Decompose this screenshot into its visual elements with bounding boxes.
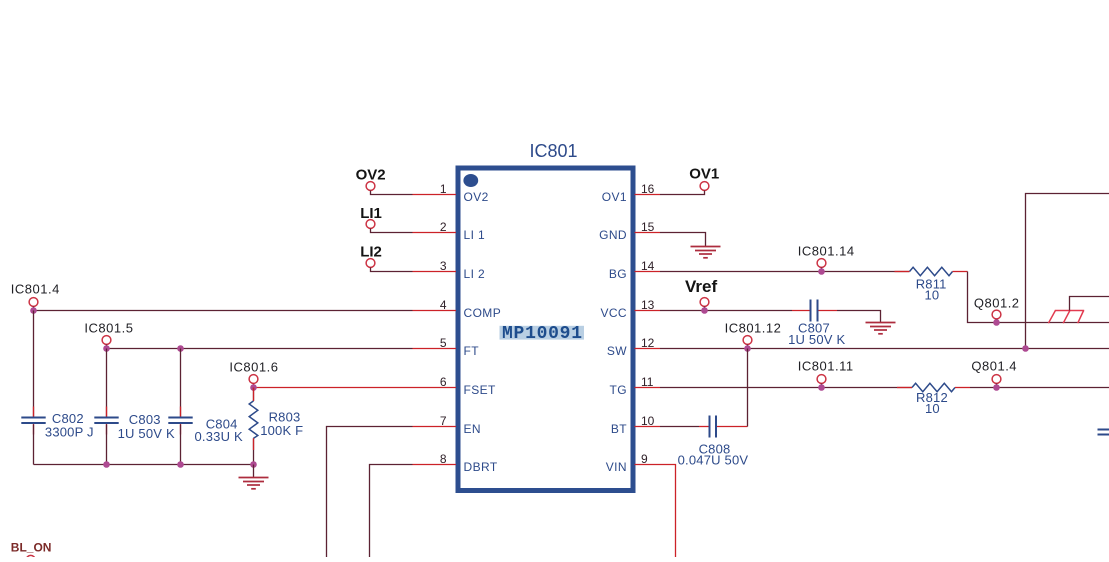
wire R803 top lead (253, 388, 255, 401)
svg-text:Q801.2: Q801.2 (974, 296, 1020, 311)
off-page terminal Q801.4 (971, 358, 1017, 387)
svg-text:Q801.4: Q801.4 (971, 358, 1017, 373)
svg-text:10: 10 (925, 401, 940, 416)
svg-text:VCC: VCC (600, 306, 627, 320)
wire C807 to ground (837, 311, 881, 323)
node SW junction right (1022, 345, 1029, 352)
wire pin 16 to OV1 (660, 191, 705, 195)
svg-text:SW: SW (607, 344, 627, 358)
terminal OV2 (356, 166, 386, 190)
svg-text:C803: C803 (129, 412, 161, 427)
svg-text:LI 2: LI 2 (464, 267, 486, 281)
svg-text:IC801.12: IC801.12 (725, 321, 782, 336)
node Q801.2 junction (993, 319, 1000, 326)
node rail junction R803 (250, 461, 257, 468)
wire FT net (pin 5) (107, 348, 413, 350)
wire red lead out of C807 (819, 310, 838, 312)
wire C802 bottom lead (33, 425, 35, 465)
off-page terminal IC801.6 (229, 360, 278, 388)
wire top right corner down to SW (1026, 194, 1109, 349)
pin-1 indicator dot (463, 174, 478, 187)
ground symbol GND pin 15 (691, 247, 721, 258)
wire C804 top lead (180, 349, 182, 417)
connector symbol red hatch (1048, 311, 1084, 324)
svg-text:BT: BT (611, 422, 627, 436)
wire SW net (pin 12) (660, 348, 1109, 350)
svg-text:OV1: OV1 (602, 190, 627, 204)
wire VIN net (pin 9, red) (660, 465, 676, 558)
wire BT net (pin 10) (660, 426, 699, 428)
off-page terminal IC801.12 (725, 321, 782, 349)
svg-text:1U 50V K: 1U 50V K (788, 332, 845, 347)
svg-text:OV2: OV2 (464, 190, 489, 204)
svg-text:1U 50V K: 1U 50V K (118, 426, 175, 441)
terminal BL_ON (11, 541, 52, 562)
wire red lead into C808 (699, 426, 709, 428)
capacitor C808 0.047U 50V (678, 416, 749, 468)
capacitor C804 0.33U K (168, 407, 243, 445)
wire C802 top lead (33, 311, 35, 417)
resistor R803 100K F (249, 401, 303, 438)
capacitor C807 1U 50V K (788, 300, 845, 348)
wire EN net (pin 7) (327, 427, 413, 558)
svg-text:EN: EN (464, 422, 481, 436)
right pin stubs 9-16 (red) (635, 195, 661, 465)
node COMP junction (30, 307, 37, 314)
ground symbol below C807 (866, 323, 896, 334)
terminal LI2 (360, 244, 382, 268)
wire DBRT net (pin 8) (370, 465, 413, 558)
svg-text:FT: FT (464, 344, 480, 358)
resistor R812 10 (897, 383, 970, 416)
resistor R811 10 (895, 267, 968, 302)
wire C803 top lead (106, 349, 108, 417)
wire BG net (pin 14) (660, 271, 910, 273)
node TG junction at Q801.4 (993, 384, 1000, 391)
node FSET junction (250, 384, 257, 391)
svg-text:3300P J: 3300P J (45, 425, 94, 440)
off-page terminal Q801.2 (974, 296, 1020, 323)
IC U1 : IC801 body (458, 168, 633, 491)
wire rail to ground (253, 465, 255, 478)
svg-text:IC801.14: IC801.14 (798, 243, 855, 258)
terminal Vref (685, 277, 717, 311)
svg-text:10: 10 (925, 288, 940, 303)
wire C804 bottom lead (180, 425, 182, 465)
svg-text:BG: BG (609, 267, 627, 281)
off-page terminal IC801.11 (798, 358, 854, 387)
svg-text:0.33U K: 0.33U K (195, 429, 244, 444)
svg-text:COMP: COMP (464, 306, 502, 320)
svg-text:GND: GND (599, 228, 627, 242)
node FT junction at C804 (177, 345, 184, 352)
svg-text:IC801.4: IC801.4 (11, 282, 60, 297)
node BG junction (818, 268, 825, 275)
wire red lead into C807 (792, 310, 810, 312)
wire VCC net (pin 13) (660, 310, 792, 312)
wire LI1 to pin 2 (371, 229, 413, 233)
wire pin 15 to ground (660, 233, 706, 247)
wire OV2 to pin 1 (371, 191, 413, 195)
svg-text:0.047U 50V: 0.047U 50V (678, 453, 749, 468)
svg-text:BL_ON: BL_ON (11, 541, 52, 555)
wire LI2 to pin 3 (371, 268, 413, 272)
wire red lead C808 to riser (717, 426, 748, 428)
capacitor C802 3300P J (21, 407, 93, 440)
off-page terminal IC801.4 (11, 282, 60, 311)
node FT junction at C803 (103, 345, 110, 352)
wire bottom rail (34, 464, 254, 466)
wire C803 bottom lead (106, 425, 108, 465)
capacitor fragment at right edge (1098, 430, 1109, 435)
svg-text:TG: TG (610, 383, 627, 397)
svg-text:DBRT: DBRT (464, 460, 498, 474)
node rail junction C803 (103, 461, 110, 468)
capacitor C803 1U 50V K (94, 407, 175, 442)
svg-text:IC801.11: IC801.11 (798, 358, 854, 373)
off-page terminal IC801.14 (798, 243, 855, 271)
svg-text:IC801.6: IC801.6 (229, 360, 278, 375)
wire TG net left (pin 11) (660, 387, 912, 389)
terminal OV1 (689, 166, 719, 191)
terminal LI1 (360, 205, 382, 228)
node TG junction at IC801.11 (818, 384, 825, 391)
wire TG net right (970, 387, 1109, 389)
svg-text:VIN: VIN (606, 460, 627, 474)
part value MP10091 (500, 324, 585, 344)
svg-text:100K F: 100K F (260, 423, 303, 438)
svg-text:Vref: Vref (685, 277, 717, 296)
svg-text:IC801: IC801 (530, 141, 578, 161)
svg-text:IC801.5: IC801.5 (84, 321, 133, 336)
left pin stubs 1-8 (red) (413, 195, 457, 465)
svg-text:MP10091: MP10091 (502, 324, 582, 344)
wire R811 to Q801.2 row (968, 272, 1109, 323)
ground symbol below rail (239, 478, 269, 489)
svg-text:OV2: OV2 (356, 166, 386, 183)
wire COMP net (pin 4) (34, 310, 413, 312)
wire riser C808 up to SW (747, 349, 749, 427)
wire upper branch to parallelogram (1070, 297, 1109, 311)
wire FSET net (pin 6) (254, 387, 413, 389)
off-page terminal IC801.5 (84, 321, 133, 349)
node VCC junction (701, 307, 708, 314)
node rail junction C804 (177, 461, 184, 468)
wire R803 bottom lead (253, 438, 255, 464)
svg-text:LI 1: LI 1 (464, 228, 486, 242)
svg-text:OV1: OV1 (689, 166, 719, 183)
node SW junction at IC801.12 (744, 345, 751, 352)
R803 red pin leads (253, 388, 255, 401)
svg-text:FSET: FSET (464, 383, 497, 397)
